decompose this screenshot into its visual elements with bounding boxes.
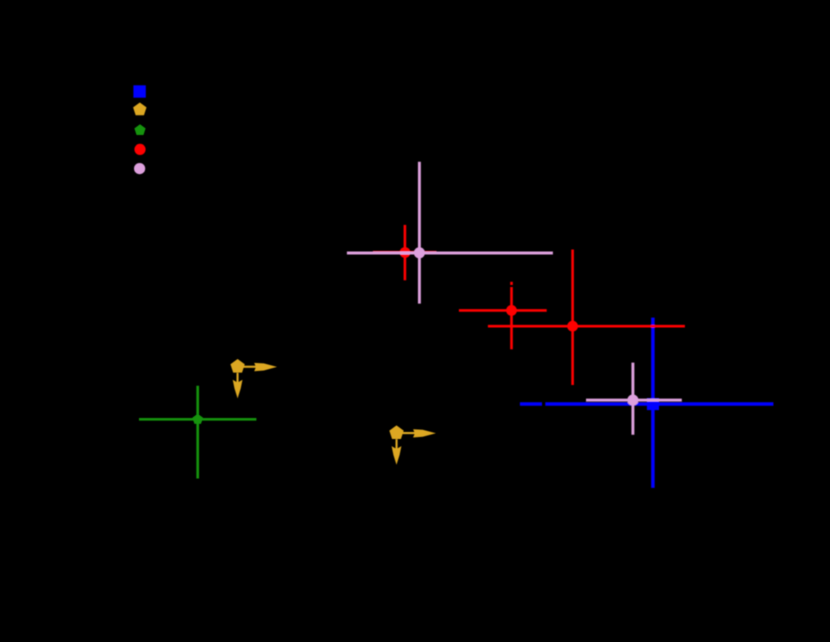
wire: green y-error bar [196,386,199,479]
wire: green x-error bar [139,418,256,421]
red series: point R1 error bars [373,225,437,280]
wire: R2 x-error bar [459,309,547,312]
wire: R2 y-error bar upper stub [510,282,513,285]
wire: P1 down arrow shaft [237,373,239,383]
P2 right arrow head [413,429,436,437]
wire: blue x-error bar left segment [520,402,542,406]
goldenrod series: pentagon P1 with limit arrows [230,359,277,398]
wire: R1 x-error bar [373,251,437,254]
wire: PL2 y-error bar [631,363,634,435]
node PL1: plum circle marker [414,247,425,258]
node R1: red circle marker [400,247,411,258]
P2 down arrow head [392,446,402,465]
node R3: red circle marker [567,321,578,332]
legend marker: red circle [134,144,145,155]
wire: blue y-error bar [651,318,655,488]
red series: point R3 error bars [488,250,685,386]
blue series: point B1 error bars [520,318,774,488]
node B1: blue square marker [647,398,659,410]
wire: PL1 y-error bar [418,162,421,304]
plum series: point PL1 error bars [347,162,553,304]
wire: R1 y-error bar [404,225,407,280]
wire: P2 right arrow shaft [402,432,416,434]
node P1: goldenrod pentagon marker [230,359,244,373]
legend marker: green pentagon [134,124,145,135]
plum series: point PL2 error bars [586,363,682,435]
wire: P1 right arrow shaft [243,366,257,368]
node R2: red circle marker [506,305,517,316]
wire: P2 down arrow shaft [396,439,398,449]
green series: point G error bars [139,386,256,479]
wire: R3 x-error bar [488,325,685,328]
wire: blue x-error bar right segment [545,402,773,406]
legend marker: blue square [133,85,145,97]
legend marker: plum circle [134,163,145,174]
wire: R2 y-error bar main [510,287,513,349]
node P2: goldenrod pentagon marker [389,425,403,439]
goldenrod series: pentagon P2 with limit arrows [389,425,436,464]
wire: R3 y-error bar [571,250,574,386]
wire: PL1 x-error bar [347,252,553,255]
legend marker: goldenrod pentagon [133,103,146,116]
wire: PL2 x-error bar [586,399,682,402]
red series: point R2 error bars [459,282,547,350]
P1 down arrow head [233,380,243,399]
P1 right arrow head [254,363,277,371]
node G: green pentagon marker [192,414,203,424]
node PL2: plum circle marker [627,395,638,406]
